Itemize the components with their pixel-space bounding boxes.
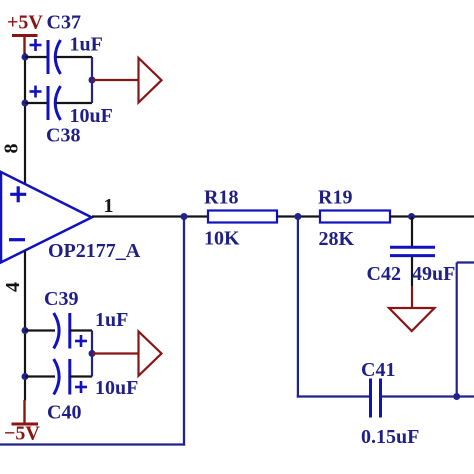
node wire joining C37/C38 right plates [91,57,93,103]
right side stub to edge [457,261,474,263]
op-amp + input marker [10,186,26,202]
svg-text:10K: 10K [204,228,240,250]
svg-text:C40: C40 [47,402,81,424]
junction node to AGND [89,77,96,84]
right side vertical wire [456,263,458,397]
wire from R19 to right edge [390,215,474,217]
analog ground arrow (bottom) [139,332,162,376]
svg-text:−5V: −5V [4,423,40,445]
svg-text:C37: C37 [47,12,81,34]
svg-text:+5V: +5V [7,12,43,34]
C41 left wire [297,395,370,397]
svg-text:C42: C42 [367,263,401,285]
junction node to AGND (bottom) [89,350,96,357]
analog ground arrow (top) [139,58,162,103]
junction node bottom right [453,393,460,400]
wire between R18 and R19 [277,215,320,217]
wire to analog ground port (bottom) [92,352,139,354]
svg-text:8: 8 [1,144,23,154]
capacitor C38 [25,86,92,121]
junction node R18/R19 [294,213,301,220]
junction node at C42 [408,213,415,220]
junction node at C39 left [22,327,29,334]
svg-text:R18: R18 [204,187,238,209]
svg-text:0.15uF: 0.15uF [361,426,419,448]
capacitor C40 [25,359,92,395]
svg-text:OP2177_A: OP2177_A [48,240,141,262]
V+ rail wire (pin 8 net) [24,53,26,185]
svg-text:C39: C39 [44,288,78,310]
svg-text:4: 4 [2,282,24,292]
wire to analog ground port [92,79,139,81]
capacitor C37 [25,39,92,74]
output wire from op-amp [92,215,208,217]
capacitor C41 [371,379,381,418]
svg-text:C41: C41 [361,359,395,381]
junction node at C37 left [22,54,29,61]
feedback vertical wire [183,217,185,446]
op-amp - input marker [9,238,25,241]
svg-text:28K: 28K [319,228,355,250]
resistor R19 [320,211,390,223]
-5V power bar [12,423,39,426]
junction node feedback tap [181,213,188,220]
V- rail wire (pin 4 net) [24,251,26,401]
capacitor C42 [390,217,435,309]
junction node at C40 left [22,373,29,380]
junction node at C38 left [22,100,29,107]
svg-text:49uF: 49uF [412,263,455,285]
svg-text:1uF: 1uF [95,309,128,331]
C41 right wire [382,395,474,397]
ground arrow (down) [389,308,435,331]
svg-text:R19: R19 [318,187,352,209]
resistor R18 [208,211,277,223]
svg-text:10uF: 10uF [95,377,138,399]
node wire joining C39/C40 right plates [91,331,93,377]
op-amp U1 OP2177_A [1,172,92,262]
+5V power bar symbol [12,36,38,55]
svg-text:1uF: 1uF [70,34,103,56]
svg-text:C38: C38 [46,125,80,147]
feedback bottom wire [0,443,185,445]
vertical wire down to C41 [297,217,299,398]
capacitor C39 [25,313,92,349]
svg-text:1: 1 [104,195,114,217]
-5V power stub [23,400,25,423]
